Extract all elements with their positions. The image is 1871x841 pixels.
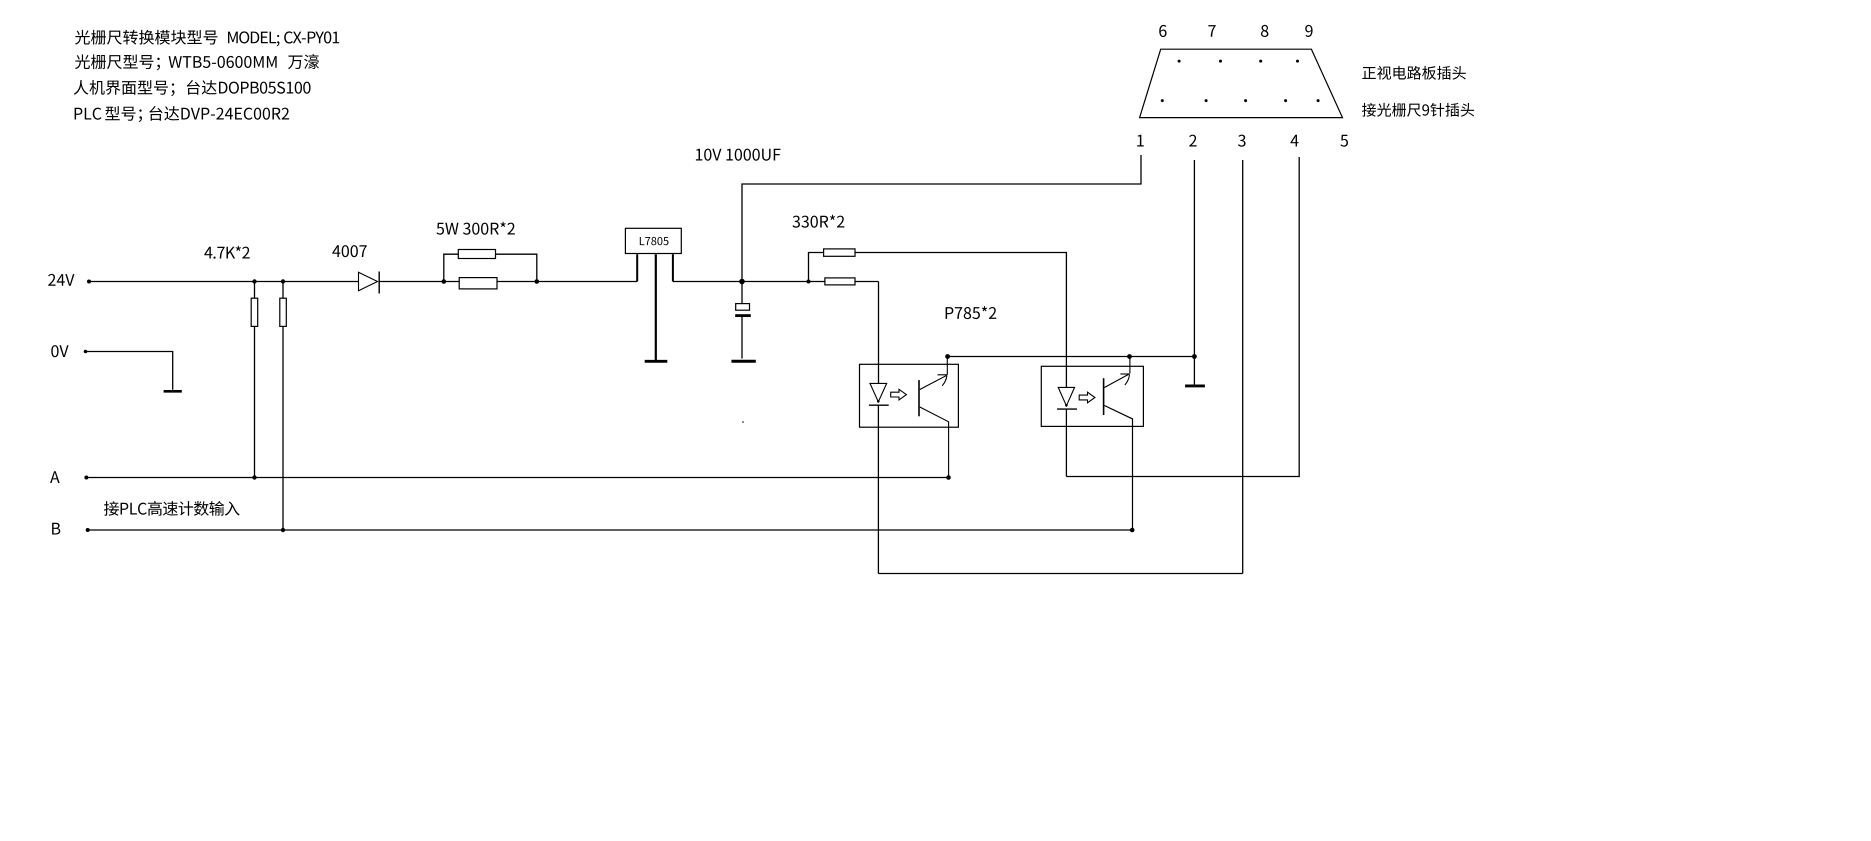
- text: label B: [52, 523, 60, 535]
- node R2 bottom on B: [281, 528, 285, 532]
- ground symbol under capacitor: [731, 360, 755, 363]
- regulator U3 L7805 box: [625, 228, 681, 253]
- text: label A: [50, 471, 60, 483]
- text: pin label 5: [1340, 135, 1348, 147]
- resistor 330R top body: [824, 249, 855, 256]
- node pin2 on collector bus: [1192, 354, 1197, 359]
- text: label 4007: [332, 245, 366, 257]
- wire pin 1 to capacitor node: [742, 155, 1141, 282]
- wire capacitor branch upper: [741, 282, 743, 304]
- wire 0V to ground: [86, 352, 173, 390]
- wire collector bus: [948, 356, 1195, 358]
- opto U2 LED triangle: [1058, 387, 1074, 405]
- wire opto U1 LED cathode drop: [877, 405, 879, 573]
- wire A line: [86, 477, 948, 479]
- node 24V terminal: [87, 280, 91, 284]
- wire resistor R1 branch to A: [254, 282, 256, 478]
- node B terminal: [86, 528, 90, 532]
- ground symbol under L7805: [645, 360, 668, 363]
- opto U2 collector: [1104, 357, 1130, 388]
- connector pin dot row2 #2: [1205, 99, 1208, 102]
- node 300R left: [442, 279, 447, 284]
- wire 24V rail left segment: [89, 281, 359, 283]
- connector pin dot row2 #4: [1284, 99, 1287, 102]
- connector pin dot row1 #9: [1296, 60, 1299, 63]
- regulator U3 output pin: [672, 254, 674, 281]
- text: title line 1: [75, 30, 339, 47]
- capacitor C1 top plate: [736, 304, 750, 311]
- capacitor C1 bottom plate: [735, 314, 751, 317]
- node opto U1 emitter on A: [946, 475, 951, 480]
- opto U2 transistor base bar: [1103, 378, 1105, 415]
- connector pin dot row1 #6: [1178, 60, 1181, 63]
- opto U1 LED cathode bar: [869, 404, 889, 406]
- connector pin dot row2 #5: [1317, 99, 1320, 102]
- text: label P785*2: [946, 306, 997, 319]
- text: label front view of PCB plug: [1362, 66, 1465, 80]
- ground symbol at 0V: [164, 390, 182, 393]
- text: pin label 8: [1261, 25, 1268, 37]
- resistor R1 4.7K body: [251, 298, 258, 326]
- wire B line: [88, 529, 1133, 531]
- opto U1 transistor base bar: [918, 380, 920, 416]
- ground symbol at pin 2: [1185, 384, 1205, 387]
- text: title line 2: [75, 54, 319, 70]
- text: label 330R*2: [792, 215, 844, 228]
- node opto U2 LED apex: [1065, 404, 1068, 407]
- connector DB9 trapezoid: [1140, 49, 1343, 117]
- wire capacitor branch lower: [741, 317, 743, 359]
- opto U1 emitter: [920, 407, 949, 478]
- node opto U1 LED apex: [877, 400, 880, 403]
- node 0V terminal: [84, 350, 88, 354]
- regulator U3 input pin: [636, 254, 638, 281]
- connector pin dot row2 #3: [1244, 99, 1247, 102]
- text: title line 4: [75, 106, 289, 122]
- wire 300R node to L7805 input pin: [444, 281, 637, 283]
- resistor R2 4.7K body: [280, 298, 287, 326]
- node 330R junction: [807, 280, 811, 284]
- wire opto U1 LED anode drop: [878, 282, 880, 384]
- node R1 bottom on A: [252, 475, 256, 479]
- node capacitor junction: [739, 279, 745, 285]
- diode D1 4007 triangle: [359, 272, 378, 291]
- wire 5W 300R top branch: [444, 254, 537, 281]
- node opto U2 collector: [1127, 354, 1132, 359]
- wire pin 2 vertical to ground: [1193, 160, 1195, 385]
- opto U1 collector: [920, 357, 948, 390]
- node R2 top: [281, 279, 285, 283]
- wire diode cathode to 300R node: [379, 281, 444, 283]
- text: pin label 9: [1305, 25, 1312, 37]
- wire pin 3 vertical: [1242, 160, 1244, 574]
- text: label 0V: [51, 345, 68, 357]
- wire 330R top branch to opto U2 LED: [809, 253, 1067, 388]
- opto U1 box: [860, 364, 959, 427]
- wire pin 4 to opto U2 LED cathode: [1066, 157, 1299, 477]
- text: pin label 3: [1238, 135, 1246, 147]
- text: label PLC high-speed counter input: [104, 501, 240, 516]
- text: pin label 4: [1290, 135, 1298, 147]
- connector pin dot row2 #1: [1161, 99, 1164, 102]
- text: label 5W 300R*2: [436, 222, 514, 235]
- opto U1 light arrow: [891, 389, 907, 400]
- opto U2 box: [1041, 366, 1143, 426]
- text: pin label 2: [1189, 135, 1196, 147]
- node 300R right: [535, 279, 540, 284]
- wire opto U2 LED cathode drop: [1065, 409, 1067, 476]
- resistor 330R bottom body: [825, 278, 855, 285]
- text: label 4.7K*2: [204, 246, 249, 259]
- connector pin dot row1 #7: [1219, 60, 1222, 63]
- diode D1 cathode bar: [378, 272, 380, 294]
- text: label 24V: [48, 274, 74, 286]
- wire bottom run to pin 3: [878, 573, 1242, 575]
- node A terminal: [84, 476, 88, 480]
- resistor 5W 300R top body: [458, 250, 495, 259]
- node opto U1 collector: [945, 354, 950, 359]
- wire L7805 output to opto U1 LED branch: [673, 281, 879, 283]
- text: label L7805: [640, 237, 669, 245]
- text: pin label 1: [1137, 135, 1143, 147]
- text: title line 3: [74, 80, 311, 96]
- resistor 5W 300R bottom body: [459, 278, 497, 289]
- text: label 9-pin linear scale plug: [1362, 103, 1474, 117]
- regulator U3 ground pin: [655, 254, 657, 360]
- node R1 top: [252, 279, 256, 283]
- text: pin label 7: [1208, 25, 1215, 37]
- node opto U2 emitter on B: [1130, 528, 1135, 533]
- opto U1 LED triangle: [870, 383, 887, 401]
- connector pin dot row1 #8: [1259, 60, 1262, 63]
- text: pin label 6: [1159, 25, 1166, 37]
- text: label 10V 1000UF: [696, 149, 781, 161]
- opto U2 light arrow: [1079, 392, 1095, 403]
- stray mark: [742, 421, 744, 423]
- opto U2 emitter: [1104, 406, 1132, 531]
- wire resistor R2 branch to B: [282, 282, 284, 531]
- opto U2 LED cathode bar: [1057, 408, 1077, 410]
